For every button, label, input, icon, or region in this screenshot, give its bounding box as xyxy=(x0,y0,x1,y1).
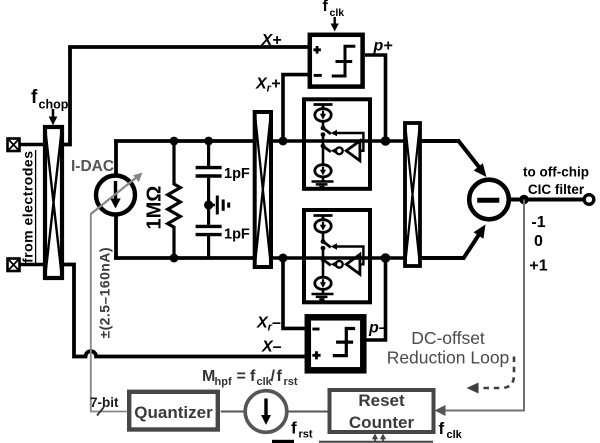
comparator U4 bottom (schmitt) xyxy=(308,317,364,370)
wire electrode+ to input chopper xyxy=(20,143,44,146)
arrowhead into summer top xyxy=(474,163,487,177)
capacitor branch wire top xyxy=(207,141,210,166)
wire top rail xyxy=(114,139,254,143)
wire chopper3 top out to summer xyxy=(420,141,479,167)
svg-text:-1: -1 xyxy=(531,214,545,231)
control line with arrow to S3 and feedback from inverter xyxy=(335,247,364,265)
current source top xyxy=(315,220,331,233)
svg-text:M: M xyxy=(202,368,215,385)
wire electrode- to input chopper xyxy=(20,263,44,266)
wire cs1 to switch1 xyxy=(322,121,325,128)
svg-text:X–: X– xyxy=(261,339,282,356)
label f_clk bottom xyxy=(439,419,463,441)
ground symbol sideways at cap midpoint xyxy=(209,196,229,215)
svg-text:Reduction Loop: Reduction Loop xyxy=(387,348,510,368)
svg-text:I-DAC: I-DAC xyxy=(71,158,114,175)
arrowhead into reset counter xyxy=(435,405,446,416)
svg-text:X+: X+ xyxy=(261,32,282,49)
node between switches xyxy=(321,132,326,137)
wire X- : chopper down to comparator2 plus input (hop over gray wire) xyxy=(62,265,306,357)
node dot Xr- xyxy=(279,254,288,263)
svg-text:7-bit: 7-bit xyxy=(90,395,119,410)
chopper output (third) xyxy=(405,123,420,266)
node dot mid capacitors xyxy=(204,200,213,209)
label DC-offset Reduction Loop xyxy=(387,328,510,368)
wire switch node to cs2 xyxy=(322,260,325,278)
gray feedback wire output to reset counter xyxy=(444,200,524,411)
node between switches xyxy=(321,246,326,251)
switch S4 xyxy=(323,260,331,266)
capacitor C2 1pF xyxy=(196,226,222,234)
node dot resistor bottom xyxy=(170,254,179,263)
wire Xr+ up to comparator1 minus input xyxy=(283,75,308,139)
wire p+ from comparator U1 to integrator1 output node xyxy=(365,55,386,139)
inverter U3 with bubble xyxy=(336,261,343,268)
svg-text:f: f xyxy=(439,419,445,438)
svg-text:f: f xyxy=(323,0,329,15)
svg-text:Reset: Reset xyxy=(358,391,405,410)
label M_hpf = f_clk / f_rst xyxy=(202,368,298,388)
wire between capacitors xyxy=(207,178,210,225)
svg-text:Counter: Counter xyxy=(349,413,415,432)
wire Xr- down to comparator2 minus input xyxy=(283,260,306,328)
ground xyxy=(312,294,334,300)
current source bottom xyxy=(315,165,331,177)
label from electrodes xyxy=(20,150,36,263)
chopper input (f_chop) xyxy=(45,127,62,278)
I-DAC current dac xyxy=(96,176,135,215)
node dot cap top xyxy=(204,137,213,146)
wire I-DAC to bottom rail xyxy=(114,214,118,258)
electrode bottom-left terminal xyxy=(8,259,20,272)
switch S3 xyxy=(321,239,326,244)
arrow f_chop into chopper xyxy=(49,109,58,126)
wire node2 through integrator2 xyxy=(306,256,404,260)
svg-text:hpf: hpf xyxy=(215,376,232,388)
svg-text:1MΩ: 1MΩ xyxy=(144,186,166,230)
switch S1 xyxy=(321,126,326,131)
I-DAC adjustment arrow gray xyxy=(91,173,143,215)
svg-text:f: f xyxy=(31,87,38,108)
svg-text:1pF: 1pF xyxy=(224,166,250,182)
dashed arrow of reduction loop xyxy=(467,357,515,394)
integrator cell 1 (charge pump) xyxy=(304,99,370,189)
arrow up into counter 2 xyxy=(380,434,386,442)
wire quantizer to current source xyxy=(221,411,246,413)
comparator U1 top (schmitt) xyxy=(310,35,363,87)
svg-text:=: = xyxy=(237,368,246,385)
wire summer to output terminal xyxy=(509,198,585,202)
svg-text:0: 0 xyxy=(534,233,543,250)
reset counter block xyxy=(330,390,434,432)
control line with arrow to S1 and feedback from inverter xyxy=(335,133,364,151)
arrow up into counter 1 xyxy=(372,434,378,442)
svg-text:rst: rst xyxy=(284,376,298,388)
output terminal xyxy=(584,195,594,205)
label f_rst bottom xyxy=(291,419,313,441)
wire chopper2 out bottom to integrator2 xyxy=(271,256,306,260)
node dot output xyxy=(519,195,529,205)
wire bottom rail xyxy=(114,256,254,260)
quantizer block xyxy=(129,392,218,430)
wire chopper2 out top to integrator1 xyxy=(271,139,306,143)
svg-text:Quantizer: Quantizer xyxy=(134,403,213,422)
svg-text:+1: +1 xyxy=(529,258,547,275)
svg-text:p+: p+ xyxy=(373,38,393,55)
capacitor C1 1pF xyxy=(196,168,222,176)
svg-text:CIC filter: CIC filter xyxy=(528,182,585,197)
switch S2 xyxy=(323,146,331,152)
label to off-chip CIC filter xyxy=(523,165,589,198)
label f_chop xyxy=(31,87,69,112)
svg-text:f: f xyxy=(291,419,297,438)
wire cap bottom to rail xyxy=(207,236,210,258)
svg-text:±(2.5–160nA): ±(2.5–160nA) xyxy=(97,248,113,339)
electrode top-left terminal xyxy=(8,139,20,152)
node dot integrator2 output xyxy=(381,253,391,263)
svg-text:rst: rst xyxy=(299,429,313,441)
inverter U2 with bubble xyxy=(336,147,343,154)
chopper mid (second) xyxy=(255,112,271,267)
current source bottom loop xyxy=(245,391,287,433)
node dot integrator1 output xyxy=(381,136,391,146)
svg-text:from electrodes: from electrodes xyxy=(20,151,36,263)
wire node1 through integrator1 xyxy=(306,139,404,143)
svg-text:f: f xyxy=(250,368,256,385)
svg-text:clk: clk xyxy=(447,429,463,441)
label -1 0 +1 xyxy=(529,214,547,275)
current source bottom xyxy=(315,277,331,289)
wire I-DAC to top rail xyxy=(114,141,118,176)
supply T bar xyxy=(314,216,333,220)
svg-text:/: / xyxy=(271,368,276,385)
wire switch node to cs2 xyxy=(322,146,325,165)
resistor R 1M xyxy=(168,141,181,258)
gray feedback wire quantizer to I-DAC xyxy=(91,213,127,412)
svg-text:DC-offset: DC-offset xyxy=(411,328,485,348)
node dot Xr+ xyxy=(279,137,288,146)
current source top xyxy=(315,109,331,122)
wire cs1 to switch1 xyxy=(322,232,325,241)
wire current source to reset counter xyxy=(287,411,331,413)
arrow f_clk into comparator U1 xyxy=(331,17,339,32)
wire p- from comparator U4 to integrator2 output node xyxy=(366,260,386,340)
supply T bar xyxy=(314,105,333,109)
svg-text:clk: clk xyxy=(330,7,345,19)
timing line under reset counter xyxy=(319,441,433,443)
svg-text:to off-chip: to off-chip xyxy=(523,165,589,180)
ground xyxy=(312,182,334,188)
label f_clk top xyxy=(323,0,345,19)
wire X+ : chopper to comparator1 plus input xyxy=(62,47,308,145)
wire chopper3 bottom out to summer xyxy=(420,235,479,258)
summer (difference) node xyxy=(469,180,509,220)
integrator cell 2 (charge pump) xyxy=(304,210,370,302)
bus slash 7-bit xyxy=(97,407,104,416)
svg-text:p–: p– xyxy=(368,320,388,337)
wire cs2 to ground xyxy=(322,177,325,182)
svg-text:f: f xyxy=(277,368,283,385)
arrowhead into summer bottom xyxy=(474,225,486,239)
wire cs2 to ground xyxy=(322,289,325,294)
svg-text:1pF: 1pF xyxy=(224,227,250,243)
node dot resistor top xyxy=(170,137,179,146)
timing bar bottom left xyxy=(272,440,294,443)
